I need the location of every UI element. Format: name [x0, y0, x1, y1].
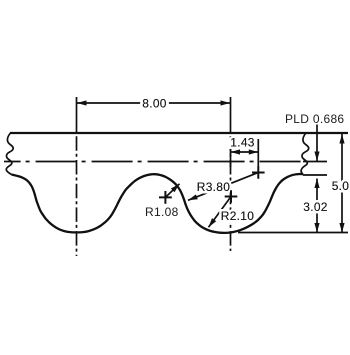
dimension 8.00 left arrowhead — [77, 100, 87, 105]
pitch line (dash-dot horizontal centerline) — [4, 161, 301, 163]
svg-text:R2.10: R2.10 — [221, 209, 255, 223]
dimension 1.43 double-headed arrow — [231, 151, 259, 153]
dimension 1.43 left extension segment on tooth 2 centerline — [230, 147, 232, 167]
svg-text:R3.80: R3.80 — [197, 180, 231, 194]
svg-text:8.00: 8.00 — [142, 97, 167, 111]
R1.08 leader line — [165, 184, 179, 198]
R1.08 arrowhead — [171, 184, 180, 193]
R3.80 arrowhead — [188, 194, 198, 200]
R3.80 leader line — [188, 173, 258, 201]
dimension 1.43 right extension line — [257, 139, 259, 167]
svg-text:3.02: 3.02 — [303, 200, 328, 214]
dimension 5.0 down arrowhead — [339, 223, 344, 233]
R2.10 leader line — [209, 197, 232, 228]
dimension 8.00 line — [77, 102, 230, 104]
R2.10 arrowhead — [209, 218, 217, 227]
tooth 2 vertical centerline (solid extension above belt) — [230, 97, 232, 133]
dimension 5.0 line — [341, 134, 343, 233]
land-level extension line right of break — [303, 174, 327, 176]
R3.80 center cross — [252, 166, 265, 179]
right break (squiggle) edge — [301, 133, 309, 174]
R2.10 center cross — [225, 190, 238, 203]
dimension PLD/3.02 shared up arrowhead at land level — [314, 179, 319, 189]
svg-text:PLD 0.686: PLD 0.686 — [285, 112, 344, 126]
tooth 2 vertical centerline (dash-dot through tooth) — [230, 136, 232, 251]
bottom extension line at tooth tip level — [238, 232, 348, 234]
left break (squiggle) edge — [6, 133, 13, 175]
PLD leader line from label down to pitch line with down arrowhead — [316, 125, 318, 162]
belt tooth profile (two tooth valleys with crowned land) — [12, 174, 304, 233]
belt top surface line — [10, 132, 348, 134]
dimension 5.0 up arrowhead — [339, 134, 344, 144]
svg-text:R1.08: R1.08 — [145, 205, 179, 219]
svg-text:1.43: 1.43 — [230, 136, 255, 150]
tooth 1 vertical centerline (dash-dot through tooth) — [76, 136, 78, 256]
dimension 3.02 line — [316, 179, 318, 233]
dimension 8.00 right arrowhead — [221, 100, 231, 105]
pitch-level extension line right of break — [303, 161, 327, 163]
dimension 3.02 down arrowhead — [314, 223, 319, 233]
svg-text:5.0: 5.0 — [332, 179, 350, 193]
tooth 1 vertical centerline (solid extension above belt) — [76, 97, 78, 133]
R1.08 center cross — [159, 191, 172, 204]
